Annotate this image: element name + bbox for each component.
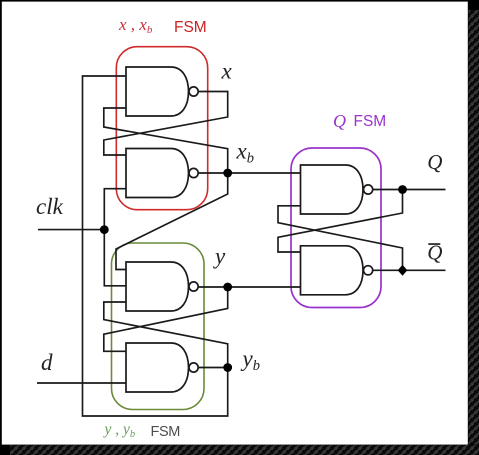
svg-text:FSM: FSM: [151, 424, 180, 440]
junction y: [223, 283, 232, 292]
wire gate5 output Q terminal: [373, 189, 446, 191]
border frame: top: [0, 0, 469, 2]
svg-text:Q: Q: [427, 150, 442, 174]
bubble U6: [364, 266, 373, 275]
nand gate U5 (Q) body: [301, 165, 364, 214]
svg-text:d: d: [41, 350, 53, 375]
wire clk up to gate2 input2: [104, 189, 126, 230]
wire Q cross to gate6 input1: [278, 190, 403, 253]
red FSM box (x latch): [116, 47, 207, 210]
wire gate4 output yb: [198, 367, 228, 369]
junction clk: [100, 225, 109, 234]
wire Qbar cross to gate5 input2: [278, 206, 403, 270]
wire d input to gate4 input2: [37, 382, 126, 384]
nand gate U2 (xb) body: [126, 149, 189, 198]
junction yb: [223, 363, 232, 372]
wire gate1 output x cross to gate2 input1: [104, 92, 228, 156]
svg-text:FSM: FSM: [354, 113, 387, 130]
nand gate U3 (y) body: [126, 262, 189, 311]
nand gate U6 (Qbar) body: [301, 246, 364, 295]
svg-text:clk: clk: [36, 194, 64, 219]
shadow band right: [468, 0, 479, 455]
junction Q: [398, 185, 407, 194]
svg-text:FSM: FSM: [174, 19, 207, 36]
shadow band bottom: [0, 445, 479, 455]
wire yb cross to gate3 input2: [104, 302, 228, 368]
border frame: left: [0, 0, 2, 446]
wire gate6 output Qbar terminal: [373, 269, 446, 271]
bubble U3: [189, 282, 198, 291]
nand gate U4 (yb) body: [126, 343, 189, 392]
green FSM box (y latch): [112, 243, 205, 410]
wire clk down to gate3: [104, 230, 126, 286]
wire xb cross to gate1 input2: [104, 108, 228, 173]
overline of Qbar: [428, 243, 440, 245]
bubble U1: [189, 87, 198, 96]
wire gate2 output xb to gate5 input1: [198, 172, 300, 174]
wire y cross to gate4 input1: [104, 287, 228, 351]
wire gate3 output y to gate6 input2: [198, 286, 300, 288]
bubble U2: [189, 168, 198, 177]
svg-text:Q: Q: [333, 111, 346, 131]
nand gate U1 (x) body: [126, 67, 189, 116]
wire clk horizontal: [38, 229, 104, 231]
bubble U4: [189, 363, 198, 372]
junction xb: [223, 169, 232, 178]
purple FSM box (Q latch): [291, 148, 381, 308]
wire xb down long diagonal to gate3 input1: [116, 173, 228, 270]
junction Qbar diamond: [398, 265, 408, 276]
svg-text:y: y: [213, 244, 226, 269]
bubble U5: [364, 185, 373, 194]
wire feedback loop yb -> gate1 input1: [83, 76, 228, 416]
svg-text:x: x: [221, 59, 233, 84]
